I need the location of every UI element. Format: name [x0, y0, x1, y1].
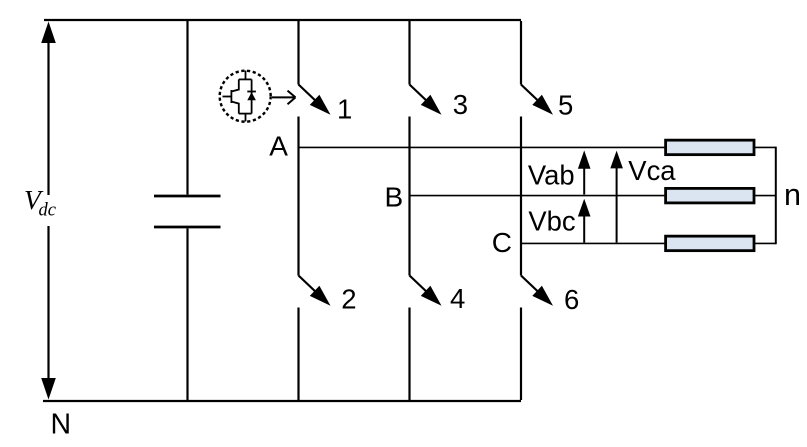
svg-text:6: 6	[564, 284, 579, 315]
wire resistor C to neutral	[754, 242, 776, 244]
svg-text:C: C	[492, 227, 512, 258]
svg-text:Vab: Vab	[528, 159, 575, 190]
Vca arrow	[616, 168, 618, 243]
Vbc arrow	[583, 216, 585, 243]
resistor load phase A	[666, 140, 754, 155]
Vdc measurement arrow line	[47, 32, 49, 388]
switch 5 blade	[521, 85, 541, 104]
leg A upper wire	[297, 21, 299, 85]
wire resistor B to neutral	[754, 195, 776, 197]
wire top DC bus rail	[44, 19, 521, 21]
wire bottom DC bus rail	[43, 400, 521, 402]
capacitor C top plate	[154, 195, 221, 198]
leg B upper wire	[408, 21, 410, 85]
leg C lower wire	[520, 308, 522, 401]
capacitor C bottom plate	[154, 226, 221, 229]
wire neutral vertical	[775, 147, 777, 245]
capacitor C wire upper	[186, 21, 188, 195]
svg-text:Vbc: Vbc	[528, 206, 575, 237]
svg-text:1: 1	[337, 93, 352, 124]
wire resistor A to neutral	[754, 146, 776, 148]
Vdc arrowhead down	[41, 378, 56, 400]
capacitor C wire lower	[186, 229, 188, 401]
node B phase line	[410, 195, 666, 197]
svg-text:B: B	[385, 182, 404, 213]
leg B lower wire	[408, 308, 410, 401]
leg C upper wire	[520, 21, 522, 85]
Vdc arrowhead up	[41, 22, 56, 44]
leg C middle wire	[520, 117, 522, 276]
node C phase line	[521, 242, 666, 244]
leg A middle wire	[297, 117, 299, 276]
switch 1 blade	[299, 85, 319, 104]
svg-text:2: 2	[341, 283, 356, 314]
IGBT U1 internals	[223, 71, 252, 122]
switch 3 blade	[410, 85, 430, 104]
IGBT module U1 dashed circle	[220, 71, 271, 122]
leg A lower wire	[297, 308, 299, 401]
svg-text:A: A	[269, 131, 288, 162]
switch 2 blade	[299, 276, 319, 295]
node A phase line	[299, 146, 666, 148]
svg-text:Vca: Vca	[628, 155, 676, 186]
IGBT U1 antiparallel diode	[247, 92, 256, 100]
svg-text:N: N	[51, 408, 72, 440]
resistor load phase B	[666, 188, 754, 203]
Vab arrow	[583, 169, 585, 195]
svg-text:5: 5	[558, 90, 573, 121]
switch 4 blade	[410, 276, 430, 295]
svg-text:3: 3	[453, 89, 468, 120]
switch 6 blade	[521, 276, 541, 295]
label Vdc	[18, 184, 60, 226]
svg-text:4: 4	[450, 283, 465, 314]
leg B middle wire	[408, 117, 410, 276]
svg-text:n: n	[784, 178, 801, 212]
pointer arrow from U1 to switch 1	[272, 91, 296, 105]
svg-text:dc: dc	[39, 201, 57, 221]
resistor load phase C	[666, 236, 754, 251]
